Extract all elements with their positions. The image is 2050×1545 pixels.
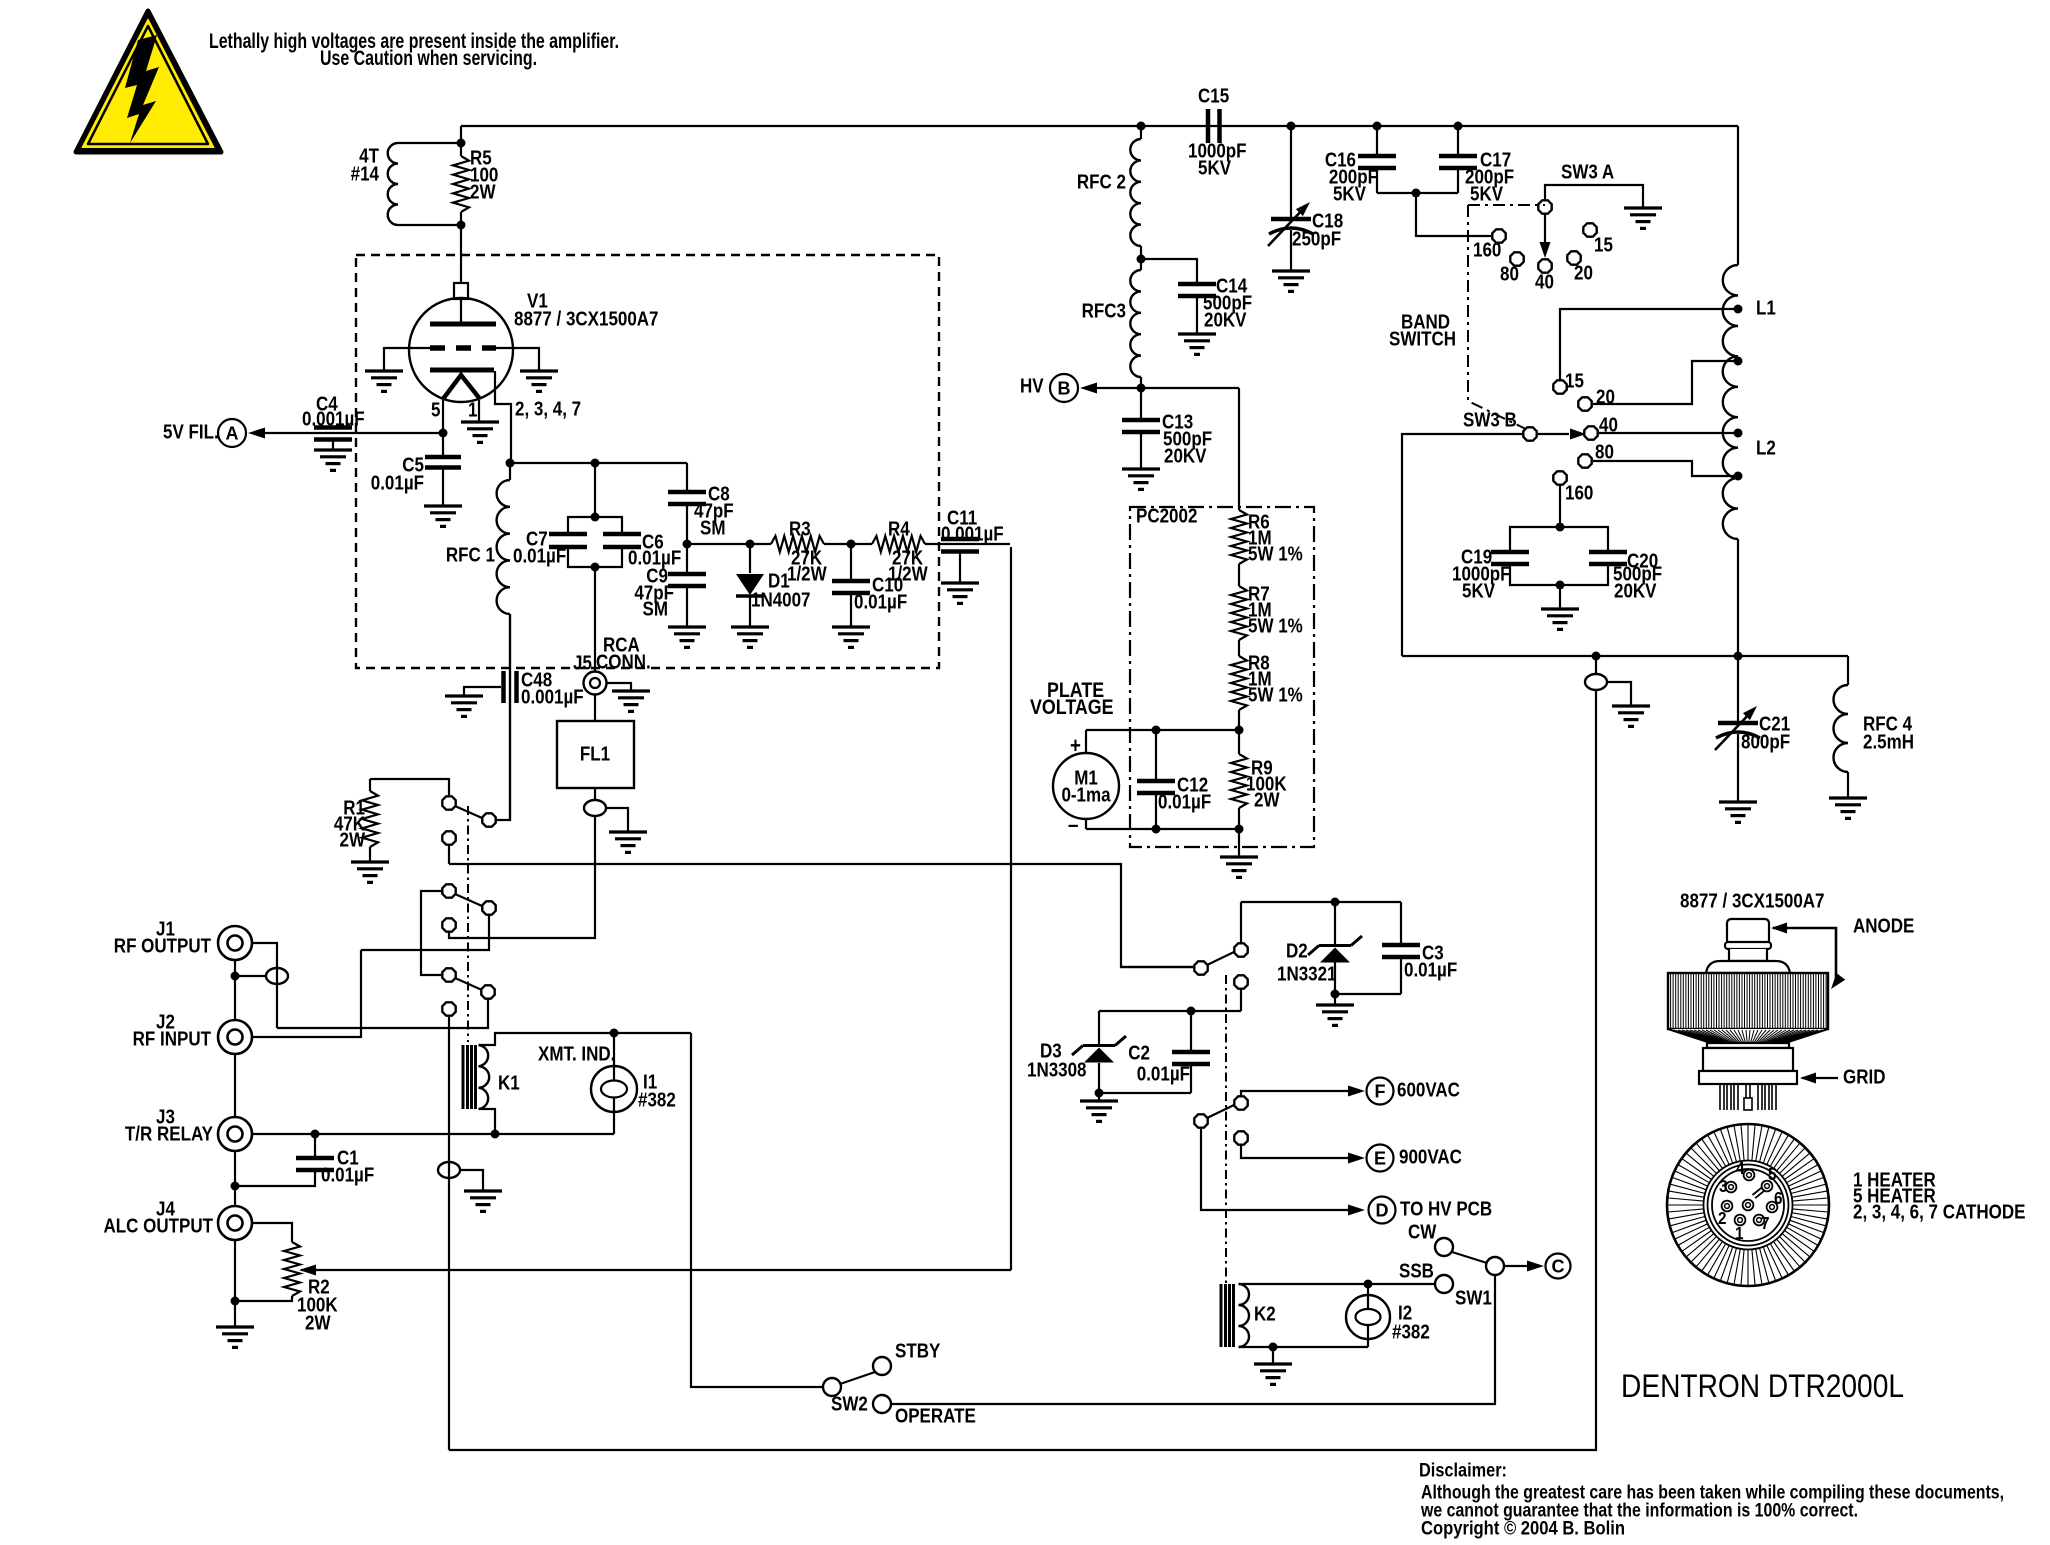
connector J5 RCA CONN. bbox=[584, 672, 607, 695]
resistor R7 1M 5W 1% bbox=[1231, 586, 1247, 640]
wire SW1 rotor to C terminal bbox=[1504, 1265, 1529, 1267]
node I2 top bbox=[1364, 1280, 1373, 1289]
svg-text:5W 1%: 5W 1% bbox=[1248, 683, 1303, 706]
svg-text:F: F bbox=[1375, 1082, 1386, 1102]
tube outline drawing 8877 / 3CX1500A7 bbox=[0, 0, 1, 1]
svg-text:8877 / 3CX1500A7: 8877 / 3CX1500A7 bbox=[1680, 889, 1825, 912]
socket pin 7 bbox=[1754, 1215, 1765, 1226]
wire B1 to C1 contact bbox=[421, 891, 442, 975]
svg-text:RF INPUT: RF INPUT bbox=[133, 1027, 212, 1050]
relay K1 contact set 3 pole P3 arm bbox=[455, 978, 482, 990]
ground D3 bbox=[1080, 1101, 1118, 1121]
ground C18 bbox=[1272, 271, 1310, 291]
svg-text:5: 5 bbox=[1768, 1164, 1777, 1184]
feedthrough at FL1 output bbox=[584, 800, 606, 816]
wire top bus right drop to L1 bbox=[1737, 126, 1739, 265]
wire C2/D3 bus bbox=[1099, 1010, 1241, 1012]
node C6/C7 bottom bracket bbox=[591, 563, 600, 572]
wire R8 to node bbox=[1238, 710, 1240, 730]
wire SW3B rotor to tank box bbox=[1402, 434, 1522, 656]
svg-text:5W 1%: 5W 1% bbox=[1248, 614, 1303, 637]
node L2 tap 40 bbox=[1734, 429, 1743, 438]
capacitor C9 47pF SM bbox=[686, 544, 688, 572]
svg-text:SW3 A: SW3 A bbox=[1561, 160, 1614, 183]
wire FL1 output down to relay contact B2 bbox=[449, 816, 595, 938]
ground R1 bbox=[351, 862, 389, 882]
svg-text:0.01µF: 0.01µF bbox=[854, 590, 907, 613]
wire top HV bus bbox=[461, 125, 1738, 127]
svg-text:DENTRON DTR2000L: DENTRON DTR2000L bbox=[1621, 1368, 1904, 1404]
tube socket bottom view bbox=[1667, 1124, 1829, 1286]
wire R4 to C11 bbox=[925, 543, 1010, 545]
ground J5 bbox=[612, 691, 650, 711]
wire K1 right drop bbox=[691, 1033, 824, 1387]
wire contact up to D2/C3 bus bbox=[1240, 902, 1242, 943]
resistor R5 100 2W bbox=[460, 143, 462, 156]
svg-text:2W: 2W bbox=[305, 1311, 331, 1334]
svg-text:0.01µF: 0.01µF bbox=[371, 471, 424, 494]
svg-text:1/2W: 1/2W bbox=[787, 562, 827, 585]
SW3B contact 20 bbox=[1578, 397, 1591, 410]
node bus / enclosure bbox=[1592, 652, 1601, 661]
svg-text:0.001µF: 0.001µF bbox=[941, 522, 1004, 545]
svg-text:0.001µF: 0.001µF bbox=[302, 407, 365, 430]
svg-text:20KV: 20KV bbox=[1614, 579, 1657, 602]
warning triangle symbol bbox=[76, 11, 221, 152]
wire pin 1 to ground bbox=[478, 400, 480, 422]
SW2 OPERATE contact bbox=[873, 1395, 891, 1413]
capacitor C4 0.001uF bbox=[314, 428, 352, 440]
svg-text:0.01µF: 0.01µF bbox=[513, 544, 566, 567]
wire R7-R8 bbox=[1238, 640, 1240, 656]
wire to C6/C7 pair bbox=[594, 463, 596, 517]
terminal F 600VAC bbox=[1367, 1078, 1394, 1105]
triode V1 8877 / 3CX1500A7 bbox=[409, 283, 513, 402]
wire 15 to L1 top tap bbox=[1560, 309, 1738, 380]
svg-text:4: 4 bbox=[1736, 1158, 1745, 1178]
wire enclosure feedthrough to ground bbox=[460, 1170, 483, 1191]
svg-text:1/2W: 1/2W bbox=[888, 562, 928, 585]
capacitor C7 0.01uF bbox=[568, 517, 595, 532]
wire K1 coil top bbox=[479, 1033, 692, 1045]
capacitor C13 500pF 20KV bbox=[1140, 388, 1142, 418]
svg-text:5V FIL.: 5V FIL. bbox=[163, 420, 219, 443]
svg-text:PC2002: PC2002 bbox=[1136, 504, 1197, 527]
node L2 tap 80 bbox=[1734, 472, 1743, 481]
diode D1 1N4007 bbox=[749, 544, 751, 573]
wire P1 to RFC1 bbox=[496, 614, 510, 820]
SW3B contact 40 bbox=[1584, 426, 1597, 439]
ground C48 bbox=[445, 696, 483, 716]
svg-text:GRID: GRID bbox=[1843, 1065, 1885, 1088]
svg-text:Copyright © 2004 B. Bolin: Copyright © 2004 B. Bolin bbox=[1421, 1519, 1625, 1540]
svg-text:0.01µF: 0.01µF bbox=[321, 1163, 374, 1186]
wire D2/C3 top bus bbox=[1241, 901, 1401, 903]
node R8/R9/C12/M1 bbox=[1235, 726, 1244, 735]
wire D3 to ground bbox=[1098, 1093, 1100, 1101]
connector J2 RF INPUT bbox=[218, 1020, 252, 1054]
svg-text:5KV: 5KV bbox=[1462, 579, 1496, 602]
ground C11 bbox=[941, 583, 979, 603]
grid callout arrow bbox=[1802, 1077, 1838, 1079]
svg-text:5KV: 5KV bbox=[1333, 182, 1367, 205]
SW3A selector arrow to 40 bbox=[1544, 214, 1546, 242]
svg-text:5KV: 5KV bbox=[1470, 182, 1504, 205]
SW3A rotor contact bbox=[1538, 200, 1551, 213]
svg-text:L1: L1 bbox=[1756, 296, 1776, 319]
connector J4 ALC OUTPUT bbox=[218, 1206, 252, 1240]
ground SW3A bbox=[1624, 208, 1662, 228]
resistor R3 27K 1/2W bbox=[771, 536, 824, 552]
relay coil K1 bbox=[463, 1045, 476, 1109]
wire tank output bus bbox=[1402, 655, 1848, 657]
wire grid right lead bbox=[493, 348, 539, 371]
wire rotor feed bbox=[1121, 966, 1193, 968]
wire J1 to relay P3 bbox=[252, 943, 277, 1028]
svg-text:15: 15 bbox=[1594, 233, 1613, 256]
ground grid left bbox=[365, 371, 403, 391]
SW3B contact 160 bbox=[1553, 471, 1566, 484]
svg-text:2.5mH: 2.5mH bbox=[1863, 730, 1914, 753]
wire RFC1 to relay pole bbox=[509, 614, 511, 820]
feedthrough on J1 line bbox=[266, 968, 288, 984]
switch K2 contact set 2 rotor bbox=[1194, 1114, 1207, 1127]
wire R2 wiper to ALC net bbox=[301, 1269, 1011, 1271]
ground C4 bbox=[314, 450, 352, 470]
svg-text:R3: R3 bbox=[789, 517, 811, 540]
wire C2 to enclosure box bbox=[448, 1016, 450, 1450]
svg-text:L2: L2 bbox=[1756, 436, 1776, 459]
svg-text:VOLTAGE: VOLTAGE bbox=[1030, 696, 1114, 720]
terminal E 900VAC bbox=[1367, 1145, 1394, 1172]
wire R3-R4 link bbox=[824, 543, 872, 545]
svg-text:SW1: SW1 bbox=[1455, 1286, 1492, 1309]
capacitor C14 500pF 20KV bbox=[1141, 259, 1197, 282]
wire J4 to R2 top bbox=[252, 1223, 292, 1242]
svg-text:20KV: 20KV bbox=[1164, 444, 1207, 467]
SW3B contact 15 bbox=[1553, 380, 1566, 393]
svg-text:5KV: 5KV bbox=[1198, 156, 1232, 179]
inductor 4T #14 parasitic choke bbox=[398, 142, 461, 144]
svg-text:2, 3, 4, 6, 7 CATHODE: 2, 3, 4, 6, 7 CATHODE bbox=[1853, 1200, 2025, 1223]
wire grid left lead bbox=[384, 348, 430, 371]
wire R1 to contact A1 bbox=[370, 779, 449, 795]
wire K1 coil bottom to J3 line bbox=[479, 1109, 496, 1134]
wire SW1 rotor drop to OPERATE bbox=[890, 1275, 1495, 1404]
svg-text:OPERATE: OPERATE bbox=[895, 1404, 976, 1427]
relay coil K2 bbox=[1221, 1284, 1234, 1347]
resistor R1 47K 2W bbox=[369, 779, 371, 791]
node J3-J4 / C1 return bbox=[231, 1182, 240, 1191]
lamp I2 #382 bbox=[1367, 1284, 1369, 1295]
contact to F 600VAC bbox=[1234, 1096, 1247, 1109]
svg-text:1: 1 bbox=[468, 398, 477, 421]
variable capacitor C18 250pF bbox=[1290, 126, 1292, 217]
socket pin 6 bbox=[1767, 1202, 1778, 1213]
svg-text:RFC 2: RFC 2 bbox=[1077, 170, 1126, 193]
ground C14 bbox=[1178, 334, 1216, 354]
svg-text:160: 160 bbox=[1565, 481, 1593, 504]
node 160/C19/C20 top bbox=[1556, 523, 1565, 532]
svg-text:D2: D2 bbox=[1286, 939, 1308, 962]
node D2 bottom bbox=[1331, 990, 1340, 999]
relay K1 contact set 1 fixed A2 bbox=[442, 831, 455, 844]
node L1 tap 20 bbox=[1734, 357, 1743, 366]
wire J5 shield to ground bbox=[607, 683, 631, 691]
svg-text:D: D bbox=[1376, 1201, 1389, 1221]
wire rotor2 to D terminal bbox=[1201, 1128, 1355, 1210]
wire SSB to K2 top bbox=[1368, 1283, 1435, 1285]
svg-text:K2: K2 bbox=[1254, 1302, 1276, 1325]
wire lower contact to C2/D3 bus bbox=[1240, 989, 1242, 1011]
contact to D2/C3 bbox=[1234, 943, 1247, 956]
node R9 bottom bbox=[1235, 825, 1244, 834]
filter FL1 bbox=[594, 694, 596, 721]
svg-text:600VAC: 600VAC bbox=[1397, 1078, 1460, 1101]
wire 40 to L2 tap bbox=[1599, 432, 1738, 434]
relay K1 contact set 2 fixed B1 bbox=[442, 884, 455, 897]
svg-text:SW3 B: SW3 B bbox=[1463, 408, 1517, 431]
svg-text:STBY: STBY bbox=[895, 1339, 941, 1362]
capacitor C15 1000pF 5KV (in line) bbox=[1208, 109, 1220, 143]
node C8/C9/R3 junction bbox=[683, 540, 692, 549]
svg-text:1N4007: 1N4007 bbox=[751, 588, 811, 611]
wire C6/C7 to J5 bbox=[594, 567, 596, 671]
wire node to feedthrough bbox=[235, 975, 266, 977]
ground grid right bbox=[520, 371, 558, 391]
wire D2 bottom to ground bbox=[1334, 994, 1336, 1005]
svg-text:8877 / 3CX1500A7: 8877 / 3CX1500A7 bbox=[514, 307, 659, 330]
ground tank feedthrough bbox=[1612, 706, 1650, 726]
relay K1 actuator dash line bbox=[467, 806, 469, 1042]
switch K2 contact set 1 rotor bbox=[1194, 961, 1207, 974]
inductor L1/L2 tank coil bbox=[1723, 265, 1738, 539]
node I1 top bbox=[610, 1029, 619, 1038]
svg-text:C2: C2 bbox=[1128, 1041, 1150, 1064]
svg-text:CONN.: CONN. bbox=[596, 650, 651, 673]
wire E contact bbox=[1241, 1145, 1355, 1158]
svg-text:Disclaimer:: Disclaimer: bbox=[1419, 1461, 1507, 1482]
inductor RFC 2 bbox=[1140, 126, 1142, 139]
ground FL1 feedthrough bbox=[609, 832, 647, 852]
node cathode bus / C6 C7 bbox=[591, 459, 600, 468]
contact to C2/D3 bbox=[1234, 975, 1247, 988]
wire cathode pins 2,3,4,7 lead bbox=[495, 371, 511, 463]
svg-text:FL1: FL1 bbox=[580, 742, 610, 765]
node filament/pin5 bbox=[439, 429, 448, 438]
svg-text:900VAC: 900VAC bbox=[1399, 1145, 1462, 1168]
SW1 rotor bbox=[1486, 1257, 1504, 1275]
node D1 junction bbox=[746, 540, 755, 549]
capacitor C19 1000pF 5KV bbox=[1510, 527, 1560, 550]
wire K2 top bbox=[1239, 1283, 1369, 1285]
wire meter bottom bbox=[1086, 828, 1239, 830]
relay K1 contact set 2 fixed B2 bbox=[442, 918, 455, 931]
svg-text:RF OUTPUT: RF OUTPUT bbox=[114, 934, 212, 957]
node 4T/R5 top bbox=[457, 139, 466, 148]
svg-text:RFC 1: RFC 1 bbox=[446, 543, 495, 566]
svg-text:SM: SM bbox=[700, 516, 725, 539]
SW3B contact 80 bbox=[1578, 454, 1591, 467]
SW3A contact 80 bbox=[1510, 252, 1523, 265]
svg-text:SWITCH: SWITCH bbox=[1389, 327, 1456, 350]
meter M1 0-1ma PLATE VOLTAGE bbox=[1085, 730, 1087, 754]
capacitor C12 0.01uF bbox=[1155, 730, 1157, 779]
wire L2 bottom to bus bbox=[1737, 539, 1739, 656]
grid ring bbox=[1699, 1043, 1797, 1084]
svg-text:T/R RELAY: T/R RELAY bbox=[125, 1122, 214, 1145]
svg-text:1: 1 bbox=[1735, 1223, 1744, 1243]
wire C2 bottom to D3 bbox=[1099, 1092, 1191, 1094]
band switch dash link bbox=[1468, 204, 1545, 206]
node C17 junction bbox=[1454, 122, 1463, 131]
socket pin center bbox=[1743, 1200, 1754, 1211]
wire R6-R7 bbox=[1238, 564, 1240, 586]
wire J1-J2 vertical bbox=[234, 960, 236, 1019]
node C12 bottom bbox=[1152, 825, 1161, 834]
svg-text:15: 15 bbox=[1565, 369, 1584, 392]
capacitor C48 0.001uF bbox=[504, 671, 517, 703]
svg-text:ANODE: ANODE bbox=[1853, 914, 1914, 937]
capacitor C11 0.001uF bbox=[941, 539, 979, 552]
capacitor C17 200pF 5KV bbox=[1457, 126, 1459, 154]
capacitor C1 0.01uF bbox=[314, 1134, 316, 1156]
SW2 rotor bbox=[823, 1378, 841, 1396]
socket pin 5 bbox=[1762, 1181, 1773, 1192]
svg-text:0.01µF: 0.01µF bbox=[1404, 958, 1457, 981]
ground D2 bbox=[1316, 1005, 1354, 1025]
ground C21 bbox=[1719, 802, 1757, 822]
wire 160 to C19/C20 bbox=[1559, 485, 1561, 527]
wire K2 to ground bbox=[1272, 1347, 1274, 1364]
node J4 ground junction bbox=[231, 1297, 240, 1306]
svg-text:1N3321: 1N3321 bbox=[1277, 962, 1337, 985]
svg-text:E: E bbox=[1374, 1149, 1386, 1169]
svg-text:Use Caution when servicing.: Use Caution when servicing. bbox=[320, 47, 537, 70]
svg-text:CW: CW bbox=[1408, 1220, 1437, 1243]
SW3A contact 15 bbox=[1583, 223, 1596, 236]
wire J3-J4 vertical bbox=[234, 1151, 236, 1206]
svg-text:SM: SM bbox=[643, 597, 668, 620]
node C16 junction bbox=[1373, 122, 1382, 131]
ground pin 1 bbox=[461, 422, 499, 442]
ground C5 bbox=[424, 506, 462, 526]
svg-text:2W: 2W bbox=[470, 180, 496, 203]
ground RFC4 bbox=[1829, 798, 1867, 818]
ground C13 bbox=[1122, 469, 1160, 489]
anode skirt bbox=[1668, 1029, 1828, 1043]
SW3B rotor contact bbox=[1523, 427, 1536, 440]
svg-text:+: + bbox=[1070, 734, 1081, 758]
wire filament line bbox=[264, 432, 443, 434]
wire join to 160 contact bbox=[1416, 193, 1491, 236]
capacitor C5 0.01uF bbox=[442, 433, 444, 455]
svg-text:80: 80 bbox=[1595, 440, 1614, 463]
terminal C bbox=[1546, 1254, 1571, 1279]
terminal D TO HV PCB bbox=[1369, 1197, 1396, 1224]
svg-text:2: 2 bbox=[1718, 1208, 1727, 1228]
svg-text:#382: #382 bbox=[1392, 1320, 1430, 1343]
node C16/C17 join bbox=[1412, 189, 1421, 198]
metering board PC2002 dash-dot box bbox=[1130, 507, 1314, 847]
wire feedthrough to ground bbox=[1607, 682, 1631, 706]
wire meter top bbox=[1086, 729, 1239, 731]
SW3A rotor wire to ground bbox=[1545, 185, 1643, 208]
inductor RFC 4 2.5mH bbox=[1847, 656, 1849, 685]
SW3B selector arrow to 40 bbox=[1538, 433, 1569, 435]
svg-text:0.01µF: 0.01µF bbox=[1137, 1062, 1190, 1085]
svg-text:#382: #382 bbox=[638, 1088, 676, 1111]
svg-text:250pF: 250pF bbox=[1292, 227, 1341, 250]
capacitor C2 0.01uF bbox=[1190, 1011, 1192, 1050]
node L1 tap 15 bbox=[1734, 305, 1743, 314]
svg-text:7: 7 bbox=[1761, 1213, 1770, 1233]
wire cathode bus bbox=[510, 462, 687, 464]
wire J3 to K1 coil and I1 bbox=[252, 1133, 614, 1135]
svg-text:800pF: 800pF bbox=[1741, 730, 1790, 753]
wire J2 to relay P2 bbox=[252, 950, 361, 1037]
socket pin 3 bbox=[1726, 1182, 1737, 1193]
svg-text:TO HV PCB: TO HV PCB bbox=[1400, 1197, 1492, 1220]
connector J1 RF OUTPUT bbox=[218, 926, 252, 960]
svg-text:XMT. IND.: XMT. IND. bbox=[538, 1042, 615, 1065]
node 4T/R5 bottom bbox=[457, 221, 466, 230]
socket pin 1 bbox=[1735, 1215, 1746, 1226]
switch SW2 STBY contact bbox=[873, 1357, 891, 1375]
svg-text:6: 6 bbox=[1774, 1188, 1783, 1208]
svg-text:SSB: SSB bbox=[1399, 1259, 1434, 1282]
svg-text:J5: J5 bbox=[573, 651, 592, 674]
svg-text:0.001µF: 0.001µF bbox=[521, 685, 584, 708]
capacitor C10 0.01uF bbox=[850, 544, 852, 579]
resistor R9 100K 2W bbox=[1238, 730, 1240, 754]
potentiometer R2 100K 2W bbox=[284, 1242, 300, 1296]
connector J3 T/R RELAY bbox=[218, 1117, 252, 1151]
node bus / L2 / C21 bbox=[1734, 652, 1743, 661]
wire J2-J3 vertical bbox=[234, 1053, 236, 1117]
svg-text:3: 3 bbox=[1719, 1176, 1728, 1196]
node K2 ground junction bbox=[1269, 1343, 1278, 1352]
anode callout arrow bbox=[1773, 928, 1836, 984]
svg-text:#14: #14 bbox=[351, 162, 380, 185]
ground C19/C20 bbox=[1541, 609, 1579, 629]
node cathode bus / RFC1 bbox=[506, 459, 515, 468]
node C1 junction bbox=[311, 1130, 320, 1139]
wire P2 to J2 riser bbox=[361, 915, 489, 950]
lamp I1 #382 bbox=[613, 1033, 615, 1067]
relay K2 actuator dash line bbox=[1225, 975, 1227, 1283]
svg-text:20: 20 bbox=[1574, 261, 1593, 284]
ground C9 bbox=[668, 627, 706, 647]
node RFC2/RFC3/C14 bbox=[1140, 246, 1142, 259]
ground C10 bbox=[832, 627, 870, 647]
relay K1 contact set 3 fixed C1 bbox=[442, 968, 455, 981]
relay K1 contact set 1 pole P1 arm bbox=[455, 806, 482, 818]
svg-text:RFC3: RFC3 bbox=[1082, 299, 1126, 322]
svg-text:80: 80 bbox=[1500, 262, 1519, 285]
svg-text:SW2: SW2 bbox=[831, 1392, 868, 1415]
node C12 top bbox=[1152, 726, 1161, 735]
wire 80 to L2 tap bbox=[1593, 461, 1738, 476]
feedthrough tank output bbox=[1585, 674, 1607, 690]
switch SW1 CW contact bbox=[1435, 1238, 1453, 1256]
wire R9 to ground bbox=[1238, 829, 1240, 857]
zener diode D2 1N3321 bbox=[1334, 902, 1336, 945]
wire P3 to J1 line bbox=[277, 999, 488, 1028]
node C18 junction bbox=[1287, 122, 1296, 131]
SW1 SSB contact bbox=[1435, 1275, 1453, 1293]
svg-text:40: 40 bbox=[1535, 270, 1554, 293]
